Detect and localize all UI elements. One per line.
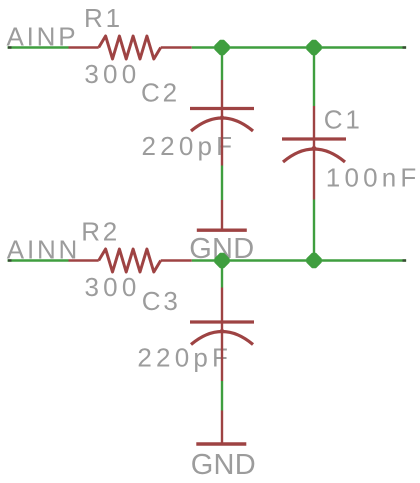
capacitor C2 [190,80,254,166]
wire junction A down to C2 [221,48,223,81]
svg-text:C2: C2 [141,78,180,108]
capacitor C1 [282,106,346,200]
capacitor C3 [190,288,254,382]
svg-text:300: 300 [84,59,140,89]
wire rail2 right (R2 to end) [192,259,407,261]
wire end tip right rail2 [403,259,407,261]
resistor R2 [69,249,192,272]
wire rail2 junction down to C3 [221,261,223,288]
wire rail1 left (AINP net) [8,46,69,48]
wire junction B down to C1 [313,48,315,107]
wire C3 to GND2 [221,381,223,411]
svg-text:C3: C3 [142,286,181,316]
wire end tip left rail2 [8,259,12,261]
wire rail2 left (AINN net) [8,259,69,261]
svg-text:C1: C1 [324,105,363,135]
ground GND2 [196,411,246,445]
svg-text:R1: R1 [84,3,123,33]
svg-text:R2: R2 [81,217,120,247]
wire end tip right rail1 [403,46,407,48]
junction rail1-C1 [307,41,321,55]
svg-text:100nF: 100nF [326,163,420,193]
wire C1 down to rail2 [313,200,315,261]
svg-text:GND: GND [191,449,256,481]
wire end tip left rail1 [8,46,12,48]
svg-text:220pF: 220pF [137,343,232,373]
ground GND1 [197,200,247,230]
junction rail1-C2 [215,41,229,55]
svg-text:300: 300 [85,272,141,302]
resistor R1 [69,36,192,59]
wire C2 to GND1 [221,166,223,201]
junction rail2-C1 [307,254,321,268]
wire rail1 right (R1 to end) [192,46,407,48]
junction rail2-C3 [215,254,229,268]
